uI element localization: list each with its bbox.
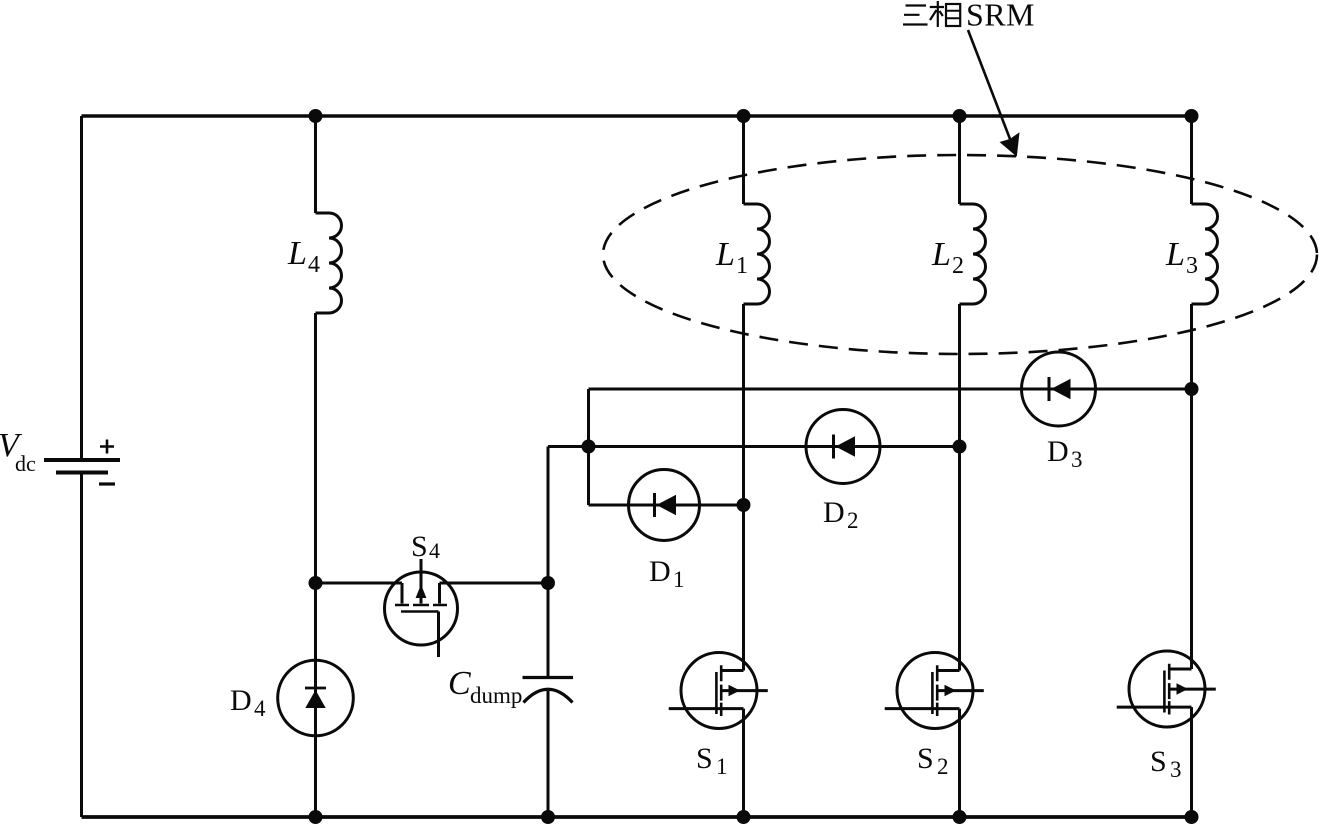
node dot L4-S4 bbox=[309, 576, 323, 590]
MOSFET S2 bbox=[885, 653, 984, 780]
svg-text:2: 2 bbox=[937, 754, 949, 779]
diode D2 bbox=[806, 410, 880, 534]
svg-text:D: D bbox=[230, 684, 252, 717]
wire S4 right segment bbox=[440, 582, 549, 585]
battery Vdc bbox=[0, 427, 120, 484]
svg-text:L: L bbox=[931, 236, 951, 273]
svg-text:L: L bbox=[715, 236, 735, 273]
wire L2 branch upper lead bbox=[958, 116, 961, 204]
svg-text:SRM: SRM bbox=[966, 0, 1035, 33]
wire D1 rail bbox=[589, 504, 744, 507]
svg-text:dump: dump bbox=[470, 683, 522, 708]
inductor L1 bbox=[715, 204, 770, 304]
node dot D1-L1 bbox=[737, 498, 751, 512]
svg-text:S: S bbox=[917, 742, 934, 775]
svg-text:dc: dc bbox=[15, 451, 36, 476]
wire vertical interconnect x588 bbox=[587, 389, 590, 505]
svg-text:4: 4 bbox=[429, 538, 440, 563]
diode D1 bbox=[629, 470, 700, 593]
SRM pointer arrow bbox=[968, 30, 1020, 157]
wire S2 source to bottom rail bbox=[958, 709, 961, 817]
wire S4 left segment bbox=[316, 582, 403, 585]
node dot top rail L3 bbox=[1185, 109, 1199, 123]
node dot bottom rail Cdump bbox=[541, 810, 555, 824]
diode D3 bbox=[1022, 352, 1096, 472]
svg-text:4: 4 bbox=[254, 696, 266, 721]
wire bottom rail bbox=[82, 815, 1192, 819]
wire left side lower (Vdc negative lead) bbox=[80, 475, 83, 818]
inductor L3 bbox=[1165, 204, 1218, 304]
svg-text:2: 2 bbox=[952, 253, 964, 279]
svg-text:2: 2 bbox=[847, 508, 859, 533]
wire L1 branch middle bbox=[742, 304, 745, 671]
wire L4 branch lower lead through D4 bbox=[314, 313, 317, 817]
node dot bottom rail S1 bbox=[737, 810, 751, 824]
svg-text:D: D bbox=[1047, 435, 1069, 468]
svg-text:S: S bbox=[1150, 745, 1167, 778]
wire D2 rail bbox=[548, 445, 960, 448]
capacitor Cdump bbox=[448, 665, 573, 708]
node dot bottom rail S2 bbox=[953, 810, 967, 824]
node dot top rail L2 bbox=[953, 109, 967, 123]
wire L3 branch middle bbox=[1190, 304, 1193, 669]
node dot bottom rail L4 bbox=[309, 810, 323, 824]
wire top rail bbox=[82, 114, 1192, 117]
wire L4 branch top lead bbox=[314, 116, 317, 213]
svg-text:D: D bbox=[649, 555, 671, 588]
inductor L2 bbox=[931, 204, 985, 304]
label 三相SRM bbox=[903, 0, 1035, 33]
svg-text:3: 3 bbox=[1071, 447, 1083, 472]
svg-text:3: 3 bbox=[1186, 253, 1198, 279]
svg-text:C: C bbox=[448, 665, 471, 702]
node dot D3-L3 bbox=[1185, 382, 1199, 396]
svg-text:3: 3 bbox=[1170, 757, 1182, 782]
svg-text:D: D bbox=[823, 496, 845, 529]
svg-text:L: L bbox=[287, 235, 307, 272]
inductor L4 bbox=[287, 213, 342, 313]
wire Cdump branch upper bbox=[547, 447, 550, 677]
svg-text:4: 4 bbox=[308, 252, 320, 278]
svg-text:L: L bbox=[1165, 236, 1185, 273]
wire D3 rail bbox=[589, 388, 1192, 391]
svg-text:1: 1 bbox=[736, 253, 748, 279]
node dot bottom rail S3 bbox=[1185, 810, 1199, 824]
svg-text:S: S bbox=[696, 742, 713, 775]
svg-text:1: 1 bbox=[673, 567, 685, 592]
node dot top rail L4 bbox=[309, 109, 323, 123]
node dot D2-L2 bbox=[953, 440, 967, 454]
MOSFET S1 bbox=[669, 653, 768, 780]
wire L1 branch upper lead bbox=[742, 116, 745, 204]
node junction S4-Cdump dot bbox=[541, 576, 555, 590]
wire S3 source to bottom rail bbox=[1190, 707, 1193, 817]
SRM dashed ellipse bbox=[603, 155, 1317, 354]
MOSFET S3 bbox=[1117, 651, 1216, 782]
svg-text:S: S bbox=[411, 530, 428, 563]
MOSFET S4 bbox=[385, 530, 458, 657]
wire left side upper (Vdc positive lead) bbox=[80, 116, 83, 458]
wire Cdump branch lower bbox=[547, 691, 550, 817]
svg-text:1: 1 bbox=[716, 754, 728, 779]
node dot interconnect-D2 bbox=[582, 440, 596, 454]
wire L2 branch middle bbox=[958, 304, 961, 671]
node dot top rail L1 bbox=[737, 109, 751, 123]
wire L3 branch upper lead bbox=[1190, 116, 1193, 204]
wire S1 source to bottom rail bbox=[742, 709, 745, 817]
diode D4 bbox=[230, 660, 353, 736]
